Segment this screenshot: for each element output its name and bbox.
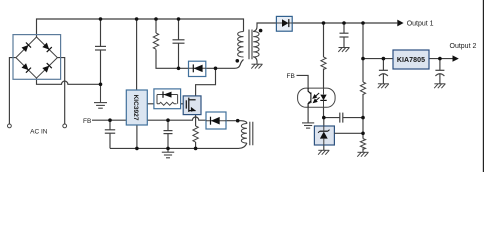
resistor R6 (divider lower) xyxy=(360,139,365,150)
mosfet Q1 arrow xyxy=(191,107,195,112)
resistor R3 (current sense) xyxy=(193,126,198,142)
wire mosfet source to sense resistor to rail xyxy=(195,115,197,149)
node divider-C5 xyxy=(361,116,365,120)
transformer T1 primary winding xyxy=(238,32,244,57)
svg-text:AC IN: AC IN xyxy=(30,129,48,136)
ground (earth) under opto transistor xyxy=(302,123,314,128)
optocoupler LED xyxy=(320,88,326,107)
wire bridge right lead to AC terminal xyxy=(57,58,64,124)
wire regulator output line to arrow xyxy=(429,58,453,60)
capacitor C4 (vcc filter) xyxy=(164,131,173,134)
chassis ground under C6 xyxy=(338,48,349,52)
capacitor C3 (FB filter) xyxy=(105,130,115,133)
chassis ground under C8 xyxy=(434,84,445,88)
wire driver box to mosfet gate xyxy=(181,103,187,105)
wire regulator output cap branch xyxy=(439,59,441,84)
phase dot secondary xyxy=(259,29,263,33)
wire regulator input cap branch xyxy=(382,59,384,84)
resistor R5 (divider upper) xyxy=(360,82,365,95)
node out1-R4 xyxy=(322,21,326,25)
capacitor C1 (bulk) xyxy=(95,46,106,50)
wire IC ground pin xyxy=(136,125,138,148)
wire FB pin line xyxy=(92,119,126,121)
node rail-C1 xyxy=(99,17,103,21)
wire primary top rail xyxy=(37,19,244,37)
node rail-C2 xyxy=(177,17,181,21)
optocoupler light arrows xyxy=(313,93,320,103)
mosfet Q1 box xyxy=(183,96,201,115)
chassis ground under C7 xyxy=(378,84,389,88)
bridge diamond wires xyxy=(16,37,58,78)
resistor R4 (opto series) xyxy=(321,57,326,70)
wire snubber cap branch xyxy=(178,19,180,68)
wire FB cap branch xyxy=(109,120,111,148)
bridge diode D3 (bottom-left) xyxy=(21,63,31,73)
node out1-divider xyxy=(361,21,365,25)
mosfet Q1 symbol xyxy=(186,98,195,112)
wire bridge left lead to AC terminal xyxy=(9,58,16,124)
IC U1 KIC3927 box xyxy=(126,90,147,125)
regulator U3 KIA7805 box xyxy=(393,50,429,69)
wire secondary bottom lead to chassis ground xyxy=(253,57,257,64)
optocoupler phototransistor xyxy=(308,88,311,107)
phase dot aux xyxy=(236,119,240,123)
border right edge xyxy=(482,0,484,172)
wire opto LED cathode down xyxy=(323,107,325,117)
node divider-zener xyxy=(361,132,365,136)
node snubber-drain xyxy=(214,67,218,71)
phase dot primary xyxy=(236,59,240,63)
wire aux diode to aux winding xyxy=(226,121,247,124)
wire startup line rail to IC top xyxy=(136,19,138,90)
node rail-R1 xyxy=(154,17,158,21)
node reg-C8 xyxy=(438,57,442,61)
capacitor C6 (output filter) xyxy=(340,33,349,37)
svg-text:FB: FB xyxy=(287,73,295,80)
wire output filter cap branch xyxy=(343,23,345,48)
gate driver box (diode D6 + resistor R2) xyxy=(154,89,181,109)
transformer T1 secondary winding xyxy=(253,32,259,57)
wire vcc line IC to aux diode (hop over source) xyxy=(147,117,206,120)
bridge diode D1 (top-left) xyxy=(21,42,31,52)
bridge rectifier BD1 box xyxy=(13,35,61,80)
node vcc-C4 xyxy=(166,118,170,122)
node rail-gnd xyxy=(166,147,170,151)
wire vcc filter cap branch xyxy=(167,120,169,148)
aux winding core xyxy=(250,122,253,146)
node rail-startup xyxy=(135,17,139,21)
wire secondary top lead to diode xyxy=(253,23,276,32)
wire IC gate out to driver box xyxy=(147,103,154,105)
capacitor C2 (snubber) xyxy=(173,40,185,43)
node divider-reg xyxy=(361,57,365,61)
wire primary ground rail xyxy=(110,143,247,148)
capacitor C7 (regulator input, polarized) xyxy=(379,70,388,76)
zener ZD1 symbol xyxy=(318,126,329,145)
wire FB2 label to opto xyxy=(297,75,309,88)
node out1-C6 xyxy=(342,21,346,25)
resistor R1 (snubber) xyxy=(153,33,158,49)
output 2 arrow xyxy=(453,55,459,61)
svg-text:Output 1: Output 1 xyxy=(407,21,434,28)
transformer T1 aux winding xyxy=(241,124,247,144)
optocoupler U2 outline xyxy=(298,88,336,107)
svg-text:KIC3927: KIC3927 xyxy=(132,94,139,120)
chassis ground under divider xyxy=(357,152,368,156)
AC terminal 1 xyxy=(7,124,11,128)
chassis ground under secondary xyxy=(251,64,262,68)
svg-text:Output 2: Output 2 xyxy=(450,43,477,50)
wire secondary output rail xyxy=(292,22,397,24)
zener ZD1 box xyxy=(314,126,334,145)
wire zener box leads xyxy=(323,118,325,151)
capacitor C5 (feedback coupling) xyxy=(340,113,343,123)
wire bulk cap branch xyxy=(100,19,102,84)
bridge diode D2 (top-right) xyxy=(42,42,52,52)
node rail-ICgnd xyxy=(135,147,139,151)
wire regulator input line xyxy=(363,58,393,60)
node zener-C5 xyxy=(322,116,326,120)
diode D5 (snubber, boxed) xyxy=(189,61,207,76)
node rail-sense xyxy=(194,147,198,151)
node bulk-gnd xyxy=(99,83,103,87)
node FB-C3 xyxy=(108,118,112,122)
svg-text:FB: FB xyxy=(83,118,91,125)
wire zener reference to divider midpoint xyxy=(334,132,363,134)
ground (earth) at primary rail xyxy=(162,148,174,157)
diode D7 (aux rectifier, boxed) xyxy=(206,112,226,129)
bridge diode D4 (bottom-right) xyxy=(42,63,52,73)
wire feedback divider rail xyxy=(362,23,364,152)
svg-text:KIA7805: KIA7805 xyxy=(397,57,425,64)
optocoupler emitter arrow xyxy=(308,101,311,104)
ground (earth) at bulk node xyxy=(94,84,107,108)
capacitor C8 (regulator output, polarized) xyxy=(435,70,444,76)
wire opto transistor emitter to ground xyxy=(307,107,309,123)
AC terminal 2 xyxy=(63,124,67,128)
wire snubber resistor branch xyxy=(156,19,189,68)
node reg-C7 xyxy=(382,57,386,61)
wire drain link xyxy=(196,68,216,96)
output 1 arrow xyxy=(397,20,403,27)
wire opto series resistor branch xyxy=(323,23,325,88)
node snubber-C2 xyxy=(177,67,181,71)
transformer T1 core xyxy=(249,30,252,60)
diode D8 (secondary rectifier, boxed) xyxy=(276,16,292,31)
wire bridge bottom to primary ground node (hop over AC lead) xyxy=(37,78,101,84)
wire zener node horizontal with cap to divider xyxy=(324,117,363,119)
chassis ground under zener xyxy=(318,150,329,154)
wire snubber to primary bottom xyxy=(206,60,244,69)
